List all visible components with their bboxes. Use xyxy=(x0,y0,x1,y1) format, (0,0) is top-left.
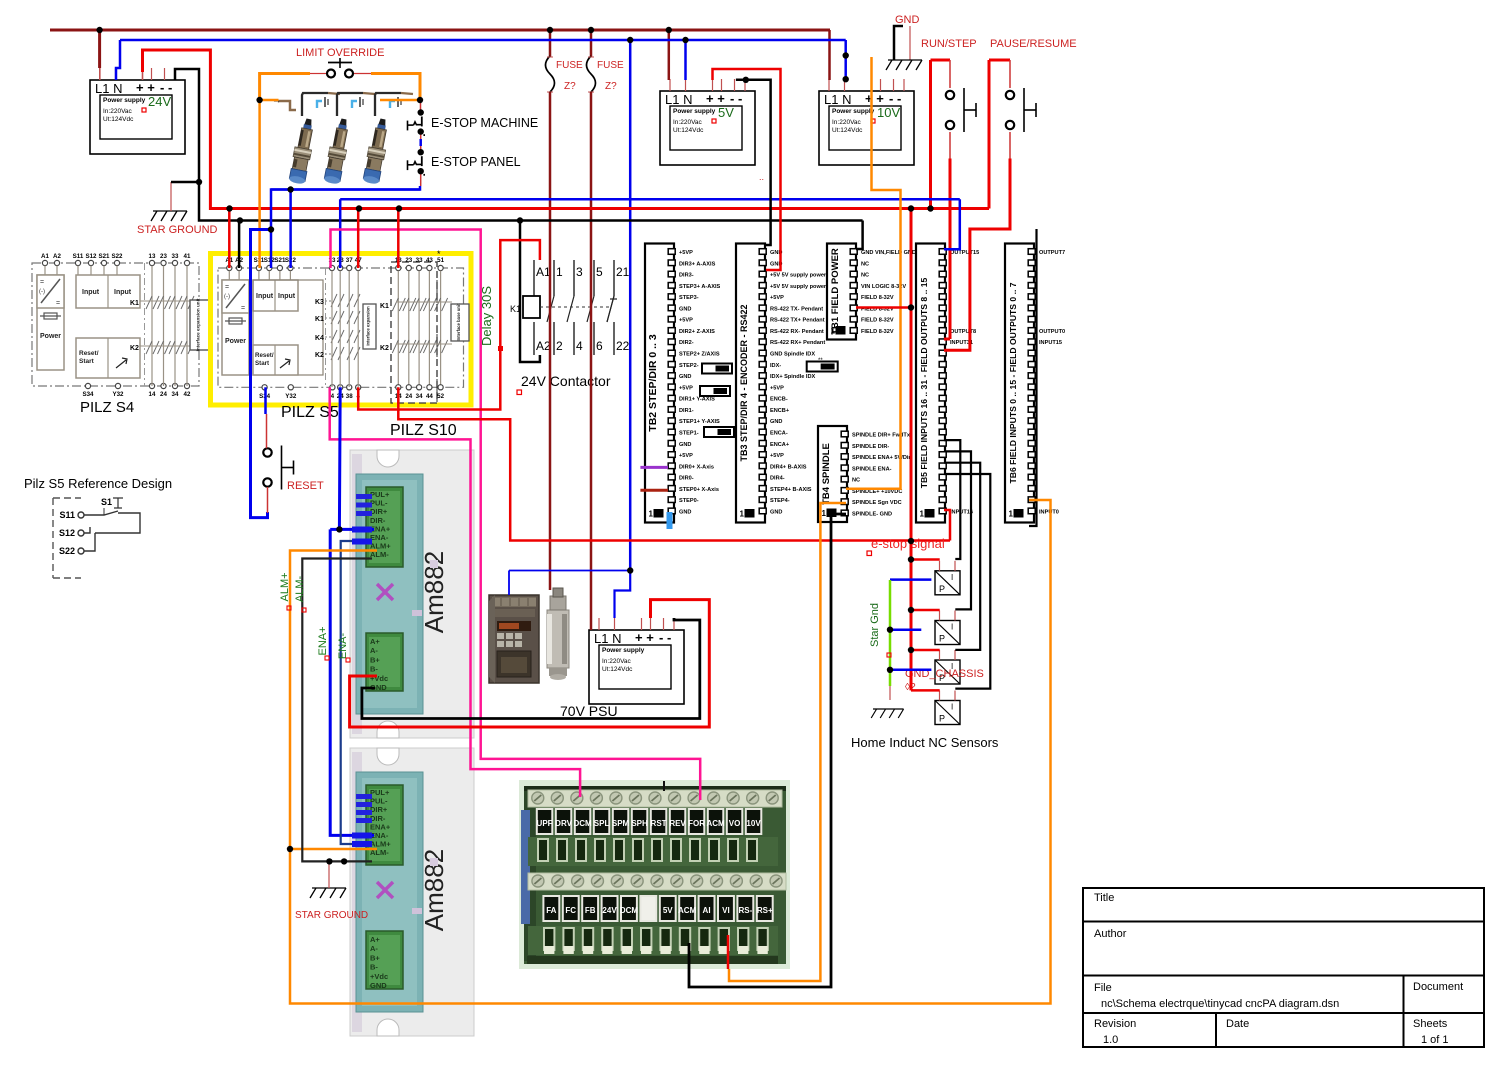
svg-text:5V: 5V xyxy=(718,105,734,120)
svg-text:+Vdc: +Vdc xyxy=(370,972,388,981)
svg-text:Interface base unit: Interface base unit xyxy=(456,303,461,341)
svg-text:ACM: ACM xyxy=(678,906,697,915)
svg-text:K3: K3 xyxy=(315,299,324,306)
svg-text:FUSE: FUSE xyxy=(597,60,624,71)
svg-text:- -: - - xyxy=(889,91,901,106)
svg-text:TB3 STEP/DIR 4 - ENCODER - RS: TB3 STEP/DIR 4 - ENCODER - RS422 xyxy=(739,304,749,461)
svg-text:ALM-: ALM- xyxy=(294,576,306,603)
svg-text:OUTPUT7: OUTPUT7 xyxy=(1039,250,1065,256)
svg-text:VI: VI xyxy=(722,906,730,915)
svg-text:L1 N: L1 N xyxy=(824,92,851,107)
svg-text:L1 N: L1 N xyxy=(594,631,621,646)
svg-text:P: P xyxy=(939,584,945,594)
svg-text:+5V 5V supply power: +5V 5V supply power xyxy=(770,273,827,279)
svg-text:52: 52 xyxy=(437,393,444,400)
svg-text:S22: S22 xyxy=(59,546,75,556)
svg-text:LIMIT OVERRIDE: LIMIT OVERRIDE xyxy=(296,47,384,59)
svg-text:+5VP: +5VP xyxy=(679,453,693,459)
svg-text:=: = xyxy=(56,300,60,307)
svg-text:NC: NC xyxy=(852,478,860,484)
svg-text:INPUT16: INPUT16 xyxy=(950,509,973,515)
svg-text:FB: FB xyxy=(585,906,596,915)
svg-text:5V: 5V xyxy=(663,906,673,915)
svg-text:FIELD 8-32V: FIELD 8-32V xyxy=(861,295,894,301)
svg-text:TB5 FIELD INPUTS 16 .. 31 - FI: TB5 FIELD INPUTS 16 .. 31 - FIELD OUTPUT… xyxy=(919,277,929,488)
svg-text:GND VIN,FIELD GND: GND VIN,FIELD GND xyxy=(861,250,916,256)
svg-text:FC: FC xyxy=(565,906,576,915)
svg-text:Reset/: Reset/ xyxy=(79,350,99,357)
svg-text:TB2 STEP/DIR 0 .. 3: TB2 STEP/DIR 0 .. 3 xyxy=(647,334,659,432)
svg-text:+5V 5V supply power: +5V 5V supply power xyxy=(770,284,827,290)
svg-text:ENCB-: ENCB- xyxy=(770,397,788,403)
svg-text:+5VP: +5VP xyxy=(770,453,784,459)
svg-text:STAR GROUND: STAR GROUND xyxy=(137,224,218,236)
svg-text:1: 1 xyxy=(1009,510,1014,519)
svg-text:STEP1+ Y-AXIS: STEP1+ Y-AXIS xyxy=(679,419,720,425)
svg-text:Ut:124Vdc: Ut:124Vdc xyxy=(832,127,863,134)
svg-text:In:220Vac: In:220Vac xyxy=(602,658,632,665)
svg-text:1: 1 xyxy=(822,509,827,518)
svg-text:33: 33 xyxy=(416,257,423,264)
svg-text:DIR0-: DIR0- xyxy=(679,476,694,482)
svg-text:INPUT0: INPUT0 xyxy=(1039,509,1059,515)
svg-text:Reset/: Reset/ xyxy=(255,352,274,359)
svg-text:SPINDLE DIR-: SPINDLE DIR- xyxy=(852,444,889,450)
svg-text:DIR4-: DIR4- xyxy=(770,476,785,482)
svg-text:Input: Input xyxy=(82,289,100,296)
svg-text:*: * xyxy=(437,249,441,259)
svg-text:=: = xyxy=(225,284,229,291)
svg-text:5: 5 xyxy=(596,265,603,279)
svg-text:OUTPUT8: OUTPUT8 xyxy=(950,329,976,335)
svg-text:B+: B+ xyxy=(370,953,380,962)
svg-text:DIR3+ A-AXIS: DIR3+ A-AXIS xyxy=(679,261,716,267)
svg-text:DIR0+ X-Axis: DIR0+ X-Axis xyxy=(679,464,714,470)
svg-text:RS-422 RX- Pendant: RS-422 RX- Pendant xyxy=(770,329,824,335)
svg-text:L1 N: L1 N xyxy=(95,81,122,96)
svg-text:B-: B- xyxy=(370,963,378,972)
svg-text:23: 23 xyxy=(160,253,167,260)
svg-text:S21: S21 xyxy=(98,253,110,260)
svg-text:Power supply: Power supply xyxy=(832,108,875,115)
svg-text:Ut:124Vdc: Ut:124Vdc xyxy=(602,666,633,673)
svg-text:24V Contactor: 24V Contactor xyxy=(521,373,611,389)
svg-text:- -: - - xyxy=(160,80,172,95)
svg-text:K4: K4 xyxy=(315,335,324,342)
svg-text:PAUSE/RESUME: PAUSE/RESUME xyxy=(990,38,1077,50)
svg-text:Star Gnd: Star Gnd xyxy=(869,603,881,647)
svg-text:10V: 10V xyxy=(746,819,761,828)
svg-text:ALM+: ALM+ xyxy=(279,572,291,601)
svg-text:GND: GND xyxy=(770,509,782,515)
svg-text:- -: - - xyxy=(659,630,671,645)
svg-text:RST: RST xyxy=(651,819,667,828)
svg-text:S11: S11 xyxy=(73,253,84,260)
svg-text:STAR GROUND: STAR GROUND xyxy=(295,910,368,921)
svg-text:ENA+: ENA+ xyxy=(317,626,329,655)
svg-text:RESET: RESET xyxy=(287,480,324,492)
svg-text:=: = xyxy=(40,279,44,286)
svg-text:STEP3+ A-AXIS: STEP3+ A-AXIS xyxy=(679,284,721,290)
svg-text:S34: S34 xyxy=(82,391,94,398)
svg-text:S11: S11 xyxy=(59,510,75,520)
svg-text:S1: S1 xyxy=(101,497,112,507)
svg-text:Power: Power xyxy=(40,333,61,340)
svg-text:Power supply: Power supply xyxy=(673,108,716,115)
svg-text:Power supply: Power supply xyxy=(103,97,146,104)
svg-text:SPM: SPM xyxy=(612,819,630,828)
svg-text:STEP2+ Z/AXIS: STEP2+ Z/AXIS xyxy=(679,352,720,358)
svg-text:K1: K1 xyxy=(315,316,324,323)
svg-text:Interface expansion: Interface expansion xyxy=(366,306,371,346)
svg-text:TB4 SPINDLE: TB4 SPINDLE xyxy=(821,443,832,505)
svg-text:STEP0+ X-Axis: STEP0+ X-Axis xyxy=(679,487,719,493)
svg-text:Sheets: Sheets xyxy=(1413,1018,1448,1030)
svg-text:A-: A- xyxy=(370,646,378,655)
svg-text:DRV: DRV xyxy=(555,819,572,828)
svg-text:+ +: + + xyxy=(706,91,725,106)
svg-text:Power supply: Power supply xyxy=(602,647,645,654)
svg-text:K1: K1 xyxy=(130,300,139,307)
svg-text:+ +: + + xyxy=(136,80,155,95)
svg-text:13: 13 xyxy=(149,253,156,260)
svg-text:In:220Vac: In:220Vac xyxy=(832,119,862,126)
svg-text:4: 4 xyxy=(331,393,335,400)
svg-text:I: I xyxy=(951,573,953,582)
svg-text:Document: Document xyxy=(1413,981,1463,993)
svg-text:23: 23 xyxy=(405,257,412,264)
svg-text:RS-422 RX+ Pendant: RS-422 RX+ Pendant xyxy=(770,340,825,346)
svg-text:+5VP: +5VP xyxy=(679,385,693,391)
svg-text:A-: A- xyxy=(370,944,378,953)
svg-text:TB1 FIELD POWER: TB1 FIELD POWER xyxy=(830,248,841,335)
svg-text:In:220Vac: In:220Vac xyxy=(103,108,133,115)
svg-text:GND: GND xyxy=(679,442,691,448)
svg-text:VO: VO xyxy=(729,819,741,828)
svg-text:ENCA+: ENCA+ xyxy=(770,442,790,448)
svg-text:I: I xyxy=(951,703,953,712)
svg-text:SPL: SPL xyxy=(594,819,610,828)
svg-text:Start: Start xyxy=(79,358,95,365)
svg-text:+ +: + + xyxy=(635,630,654,645)
svg-text:SPINDLE ENA-: SPINDLE ENA- xyxy=(852,466,892,472)
svg-text:1: 1 xyxy=(740,510,745,519)
svg-text:Input: Input xyxy=(114,289,132,296)
svg-text:OUTPUT15: OUTPUT15 xyxy=(950,250,979,256)
svg-text:STEP1-: STEP1- xyxy=(679,430,699,436)
svg-text:Pilz S5 Reference Design: Pilz S5 Reference Design xyxy=(24,476,172,491)
svg-text:DIR1-: DIR1- xyxy=(679,408,694,414)
svg-text:Title: Title xyxy=(1094,892,1114,904)
svg-text:Z?: Z? xyxy=(564,81,576,92)
svg-text:I: I xyxy=(951,623,953,632)
svg-text:TB6 FIELD INPUTS 0 .. 15 - FIE: TB6 FIELD INPUTS 0 .. 15 - FIELD OUTPUTS… xyxy=(1008,282,1018,483)
svg-text:P: P xyxy=(939,634,945,644)
svg-text:..: .. xyxy=(759,172,764,182)
svg-text:34: 34 xyxy=(172,391,179,398)
svg-text:ENCB+: ENCB+ xyxy=(770,408,790,414)
svg-text:**: ** xyxy=(818,358,823,364)
svg-text:- -: - - xyxy=(730,91,742,106)
svg-text:Power: Power xyxy=(225,338,246,345)
svg-text:INPUT15: INPUT15 xyxy=(1039,340,1062,346)
svg-text:A1: A1 xyxy=(41,253,49,260)
svg-text:A+: A+ xyxy=(370,935,380,944)
svg-text:FUSE: FUSE xyxy=(556,60,583,71)
svg-text:24: 24 xyxy=(405,393,412,400)
svg-text:22: 22 xyxy=(616,339,630,353)
svg-text:S22: S22 xyxy=(111,253,123,260)
svg-text:+5VP: +5VP xyxy=(679,250,693,256)
svg-text:38: 38 xyxy=(346,393,353,400)
svg-text:44: 44 xyxy=(426,393,433,400)
svg-text:1 of 1: 1 of 1 xyxy=(1421,1034,1449,1046)
svg-text:E-STOP PANEL: E-STOP PANEL xyxy=(431,155,521,169)
svg-text:SPINDLE DIR+ FwdTx: SPINDLE DIR+ FwdTx xyxy=(852,433,911,439)
svg-text:GND: GND xyxy=(679,374,691,380)
svg-text:SPH: SPH xyxy=(631,819,648,828)
svg-text:Ut:124Vdc: Ut:124Vdc xyxy=(673,127,704,134)
svg-text:RS+: RS+ xyxy=(757,906,773,915)
svg-text:ACM: ACM xyxy=(706,819,725,828)
svg-text:+5VP: +5VP xyxy=(679,318,693,324)
svg-text:6: 6 xyxy=(596,339,603,353)
svg-text:AI: AI xyxy=(703,906,711,915)
svg-text:FIELD 8-32V: FIELD 8-32V xyxy=(861,329,894,335)
svg-text:Home Induct NC Sensors: Home Induct NC Sensors xyxy=(851,735,999,750)
svg-text:In:220Vac: In:220Vac xyxy=(673,119,703,126)
svg-text:S12: S12 xyxy=(85,253,97,260)
svg-text:+5VP: +5VP xyxy=(770,295,784,301)
svg-text:STEP0-: STEP0- xyxy=(679,498,699,504)
svg-text:1: 1 xyxy=(920,510,925,519)
svg-text:GND: GND xyxy=(370,981,387,990)
svg-text:3: 3 xyxy=(576,265,583,279)
svg-text:S12: S12 xyxy=(59,528,75,538)
svg-text:DIR1+ Y-AXIS: DIR1+ Y-AXIS xyxy=(679,397,715,403)
svg-text:2: 2 xyxy=(556,339,563,353)
svg-text:34: 34 xyxy=(416,393,423,400)
svg-text:FOR: FOR xyxy=(688,819,705,828)
svg-text:ENA-: ENA- xyxy=(337,633,349,660)
svg-text:K2: K2 xyxy=(315,352,324,359)
svg-text:42: 42 xyxy=(184,391,191,398)
svg-text:STEP4+ B-AXIS: STEP4+ B-AXIS xyxy=(770,487,812,493)
svg-text:Start: Start xyxy=(255,360,269,367)
svg-text:24: 24 xyxy=(160,391,167,398)
svg-text:K2: K2 xyxy=(380,345,389,352)
svg-text:DIR2+ Z-AXIS: DIR2+ Z-AXIS xyxy=(679,329,715,335)
svg-text:DIR2-: DIR2- xyxy=(679,340,694,346)
svg-text:Input: Input xyxy=(278,293,296,300)
svg-text:SPINDLE- GND: SPINDLE- GND xyxy=(852,511,892,517)
svg-text:+ +: + + xyxy=(865,91,884,106)
svg-text:FIELD 8-32V: FIELD 8-32V xyxy=(861,318,894,324)
svg-text:UPF: UPF xyxy=(537,819,553,828)
svg-text:B-: B- xyxy=(370,665,378,674)
svg-text:Y32: Y32 xyxy=(112,391,124,398)
svg-text:1.0: 1.0 xyxy=(1103,1034,1118,1046)
svg-text:Input: Input xyxy=(256,293,274,300)
svg-text:DCM: DCM xyxy=(620,906,639,915)
svg-text:1: 1 xyxy=(649,510,654,519)
svg-text:4: 4 xyxy=(576,339,583,353)
svg-text:70V PSU: 70V PSU xyxy=(560,703,618,719)
svg-text:24V: 24V xyxy=(148,94,171,109)
svg-text:21: 21 xyxy=(616,265,630,279)
svg-text:GND: GND xyxy=(770,419,782,425)
svg-text:=: = xyxy=(241,305,245,312)
svg-text:(-): (-) xyxy=(224,294,230,300)
svg-text:nc\Schema electrque\tinycad cn: nc\Schema electrque\tinycad cncPA diagra… xyxy=(1101,998,1339,1010)
svg-text:GND Spindle IDX: GND Spindle IDX xyxy=(770,352,815,358)
svg-text:10V: 10V xyxy=(877,105,900,120)
svg-text:1: 1 xyxy=(831,327,836,336)
svg-text:REV: REV xyxy=(669,819,686,828)
svg-text:RS-422 TX- Pendant: RS-422 TX- Pendant xyxy=(770,306,823,312)
svg-text:STEP2-: STEP2- xyxy=(679,363,699,369)
svg-text:GND: GND xyxy=(895,14,920,26)
svg-text:41: 41 xyxy=(184,253,191,260)
svg-text:FA: FA xyxy=(546,906,556,915)
svg-text:37: 37 xyxy=(346,257,353,264)
svg-text:Ut:124Vdc: Ut:124Vdc xyxy=(103,116,134,123)
svg-text:PILZ S4: PILZ S4 xyxy=(80,399,134,416)
svg-text:1: 1 xyxy=(556,265,563,279)
svg-text:DIR3-: DIR3- xyxy=(679,273,694,279)
svg-text:K1: K1 xyxy=(380,303,389,310)
svg-text:NC: NC xyxy=(861,261,869,267)
svg-text:RS-422 TX+ Pendant: RS-422 TX+ Pendant xyxy=(770,318,825,324)
svg-text:GND: GND xyxy=(679,306,691,312)
svg-text:STEP3-: STEP3- xyxy=(679,295,699,301)
svg-text:B+: B+ xyxy=(370,655,380,664)
svg-text:Y32: Y32 xyxy=(285,393,297,400)
svg-text:(-): (-) xyxy=(39,289,45,295)
svg-text:A+: A+ xyxy=(370,637,380,646)
svg-text:33: 33 xyxy=(172,253,179,260)
svg-text:43: 43 xyxy=(426,257,433,264)
svg-text:Revision: Revision xyxy=(1094,1018,1136,1030)
svg-text:STEP4-: STEP4- xyxy=(770,498,790,504)
svg-text:GND: GND xyxy=(679,509,691,515)
svg-text:P: P xyxy=(939,714,945,724)
svg-text:File: File xyxy=(1094,982,1112,994)
svg-text:DIR4+ B-AXIS: DIR4+ B-AXIS xyxy=(770,464,807,470)
svg-text:OUTPUT0: OUTPUT0 xyxy=(1039,329,1065,335)
svg-text:SPINDLE ENA+ 5V/Dir: SPINDLE ENA+ 5V/Dir xyxy=(852,455,911,461)
svg-text:IDX+ Spindle IDX: IDX+ Spindle IDX xyxy=(770,374,815,380)
svg-text:L1 N: L1 N xyxy=(665,92,692,107)
svg-text:PILZ S10: PILZ S10 xyxy=(390,422,457,439)
svg-text:SPINDLE Sgn VDC: SPINDLE Sgn VDC xyxy=(852,500,902,506)
svg-text:Date: Date xyxy=(1226,1018,1249,1030)
svg-text:IDX-: IDX- xyxy=(770,363,781,369)
svg-text:RS-: RS- xyxy=(738,906,752,915)
svg-text:Author: Author xyxy=(1094,928,1127,940)
svg-text:14: 14 xyxy=(149,391,156,398)
svg-text:RUN/STEP: RUN/STEP xyxy=(921,38,977,50)
svg-text:A2: A2 xyxy=(53,253,61,260)
svg-text:24V: 24V xyxy=(602,906,617,915)
svg-text:Z?: Z? xyxy=(605,81,617,92)
svg-text:ENCA-: ENCA- xyxy=(770,430,788,436)
svg-text:Interface expansion unit: Interface expansion unit xyxy=(196,298,201,351)
svg-text:+5VP: +5VP xyxy=(770,385,784,391)
svg-text:NC: NC xyxy=(861,273,869,279)
svg-text:e-stop signal: e-stop signal xyxy=(871,536,945,551)
svg-text:E-STOP MACHINE: E-STOP MACHINE xyxy=(431,116,538,130)
svg-text:K2: K2 xyxy=(130,345,139,352)
svg-text:DCM: DCM xyxy=(573,819,592,828)
